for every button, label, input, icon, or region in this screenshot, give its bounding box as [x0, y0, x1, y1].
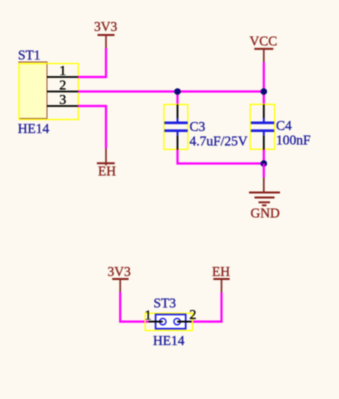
capacitor C4 bottom lead [263, 132, 265, 136]
svg-text:100nF: 100nF [276, 133, 311, 148]
power symbol VCC: bar [254, 48, 273, 50]
svg-text:1: 1 [145, 308, 152, 323]
svg-text:3: 3 [59, 93, 66, 108]
power symbol 3V3 top: bar [98, 34, 115, 36]
ground GND: stub [263, 178, 265, 193]
junction dot at GND net [261, 160, 268, 167]
wire pin3 to EH [78, 106, 106, 149]
capacitor C4 top lead [263, 105, 265, 119]
wire C3 bottom to GND net [178, 150, 264, 164]
wire C4 bottom [263, 150, 265, 164]
power symbol 3V3 top: stub [105, 35, 107, 48]
ground GND: bars [249, 193, 280, 206]
jumper ST3 selection box [145, 313, 192, 330]
capacitor C4 plates [251, 123, 274, 131]
wire GND stub magenta [263, 164, 265, 178]
svg-text:EH: EH [98, 164, 116, 179]
svg-text:2: 2 [59, 78, 66, 93]
svg-text:1: 1 [59, 64, 66, 79]
capacitor C3 bottom lead [177, 132, 179, 136]
power symbol EH bottom: bar [213, 278, 229, 280]
svg-text:ST3: ST3 [154, 296, 177, 311]
ST1 pin 3 [47, 105, 78, 107]
ST3 pad circle 2 [174, 318, 180, 324]
svg-text:HE14: HE14 [153, 333, 185, 348]
power symbol 3V3 bottom: bar [112, 278, 128, 280]
svg-text:2: 2 [189, 308, 196, 323]
wire EH to ST3 pin 2 [192, 293, 222, 322]
svg-text:VCC: VCC [250, 34, 278, 49]
svg-text:4.7uF/25V: 4.7uF/25V [190, 133, 248, 148]
svg-text:HE14: HE14 [18, 121, 50, 136]
junction dot at C4 top / VCC [261, 88, 268, 95]
svg-text:GND: GND [251, 206, 280, 221]
capacitor C3 plates [164, 123, 187, 131]
svg-text:3V3: 3V3 [94, 19, 117, 34]
junction dot at C3 top [174, 88, 181, 95]
ST3 pad circle 1 [160, 318, 166, 324]
ST3 pin 2 line [177, 321, 191, 323]
connector ST1 selection box [19, 64, 78, 120]
connector ST1 body [19, 62, 47, 119]
svg-text:ST1: ST1 [18, 48, 41, 63]
svg-text:EH: EH [212, 264, 230, 279]
power symbol EH top section: stub [105, 149, 107, 166]
power symbol EH top section: bar [97, 162, 115, 164]
jumper ST3 body [156, 315, 186, 329]
svg-text:C4: C4 [276, 118, 292, 133]
svg-text:C3: C3 [190, 119, 206, 134]
wire 3V3 to ST3 pin 1 [120, 292, 148, 322]
capacitor C3 selection box [164, 105, 188, 150]
wire C4 top stub [263, 92, 265, 106]
ST3 pin 1 line [148, 321, 162, 323]
ST1 pin 1 [47, 76, 78, 78]
wire pin1 to 3V3 [78, 48, 106, 77]
wire pin2 to VCC net (horizontal) [78, 90, 264, 92]
wire C3 top stub [176, 92, 178, 106]
ST1 pin 2 [47, 91, 78, 93]
power symbol VCC: stub [263, 49, 265, 62]
capacitor C3 top lead [177, 105, 179, 119]
power symbol 3V3 bottom: stub [119, 279, 121, 292]
capacitor C4 selection box [250, 104, 274, 149]
svg-text:3V3: 3V3 [108, 264, 131, 279]
power symbol EH bottom: stub [221, 279, 223, 293]
wire VCC down to net [263, 62, 265, 92]
